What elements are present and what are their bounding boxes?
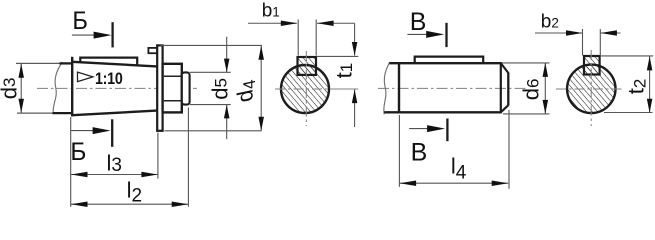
body bottom edge xyxy=(384,111,501,113)
washer xyxy=(157,45,162,130)
phantom thin edges left of break xyxy=(16,63,60,113)
shaft body thick edges before shoulder xyxy=(53,63,72,113)
threaded tip xyxy=(182,72,190,104)
dimension l2 xyxy=(71,108,189,207)
key cross-section on circle 2 xyxy=(584,56,600,75)
section mark Б bottom: arrow xyxy=(93,127,111,134)
dimension d5 extension lines xyxy=(190,37,231,140)
svg-text:Б: Б xyxy=(70,138,86,166)
shoulder face xyxy=(71,57,73,117)
section mark В bottom: tick xyxy=(446,119,448,142)
section circle В-В hatched xyxy=(567,65,615,113)
dimension l3 xyxy=(71,133,158,179)
key cross-section on circle 1 xyxy=(298,57,317,75)
dimension d3 xyxy=(20,64,22,113)
svg-text:В: В xyxy=(410,8,427,36)
svg-text:В: В xyxy=(411,138,428,166)
taper symbol triangle xyxy=(78,72,94,82)
keyway boss right shaft xyxy=(415,57,484,64)
section mark В top: arrow xyxy=(426,31,444,38)
chamfer bottom xyxy=(501,105,509,112)
d5 arrows (outside) xyxy=(224,59,230,73)
section mark Б top: tick xyxy=(111,22,113,47)
dimension b2 xyxy=(535,29,621,56)
dimension b1 xyxy=(248,20,355,56)
section mark Б bottom: leader xyxy=(71,130,93,132)
section circle Б-Б hatched xyxy=(281,65,329,113)
centerlines circle 2 xyxy=(556,50,624,126)
washer tab xyxy=(148,48,157,53)
section mark Б top: leader xyxy=(72,34,95,36)
nut body xyxy=(163,64,182,113)
cone bottom edge xyxy=(72,111,157,116)
section mark В bottom: leader xyxy=(409,128,430,130)
svg-text:b2: b2 xyxy=(541,12,559,33)
body top edge xyxy=(389,62,501,64)
wire wavy break line left shaft xyxy=(53,62,62,114)
wavy break line right shaft xyxy=(384,62,390,114)
dimension t2 xyxy=(600,56,654,113)
body left edge xyxy=(398,62,400,113)
nut chamfer lines xyxy=(164,76,181,101)
dimension t1 xyxy=(317,23,359,127)
svg-text:b1: b1 xyxy=(262,1,280,22)
section mark В top: tick xyxy=(445,23,447,47)
dimension d6 xyxy=(502,63,550,114)
section mark Б bottom: tick xyxy=(111,119,113,147)
end face xyxy=(507,73,509,106)
chamfer transition line xyxy=(500,62,502,113)
svg-text:l3: l3 xyxy=(107,150,122,176)
dimension l4 xyxy=(399,110,509,189)
keyway boss on cone xyxy=(80,58,137,66)
section mark В bottom: arrow xyxy=(427,125,445,132)
centerlines circle 1 xyxy=(275,51,358,126)
svg-text:d5: d5 xyxy=(208,78,233,100)
d4 arrows (inside) xyxy=(258,46,264,60)
centerline left shaft xyxy=(37,87,197,89)
centerline right shaft xyxy=(378,87,526,89)
cone top edge 1:10 xyxy=(72,62,157,67)
section mark Б top: arrow xyxy=(94,32,112,39)
svg-text:d3: d3 xyxy=(0,78,22,100)
svg-text:1:10: 1:10 xyxy=(95,70,123,88)
section mark В top: leader xyxy=(407,33,431,35)
svg-text:Б: Б xyxy=(72,7,88,35)
chamfer top xyxy=(501,63,509,73)
dimension d4 extension lines xyxy=(161,45,263,130)
